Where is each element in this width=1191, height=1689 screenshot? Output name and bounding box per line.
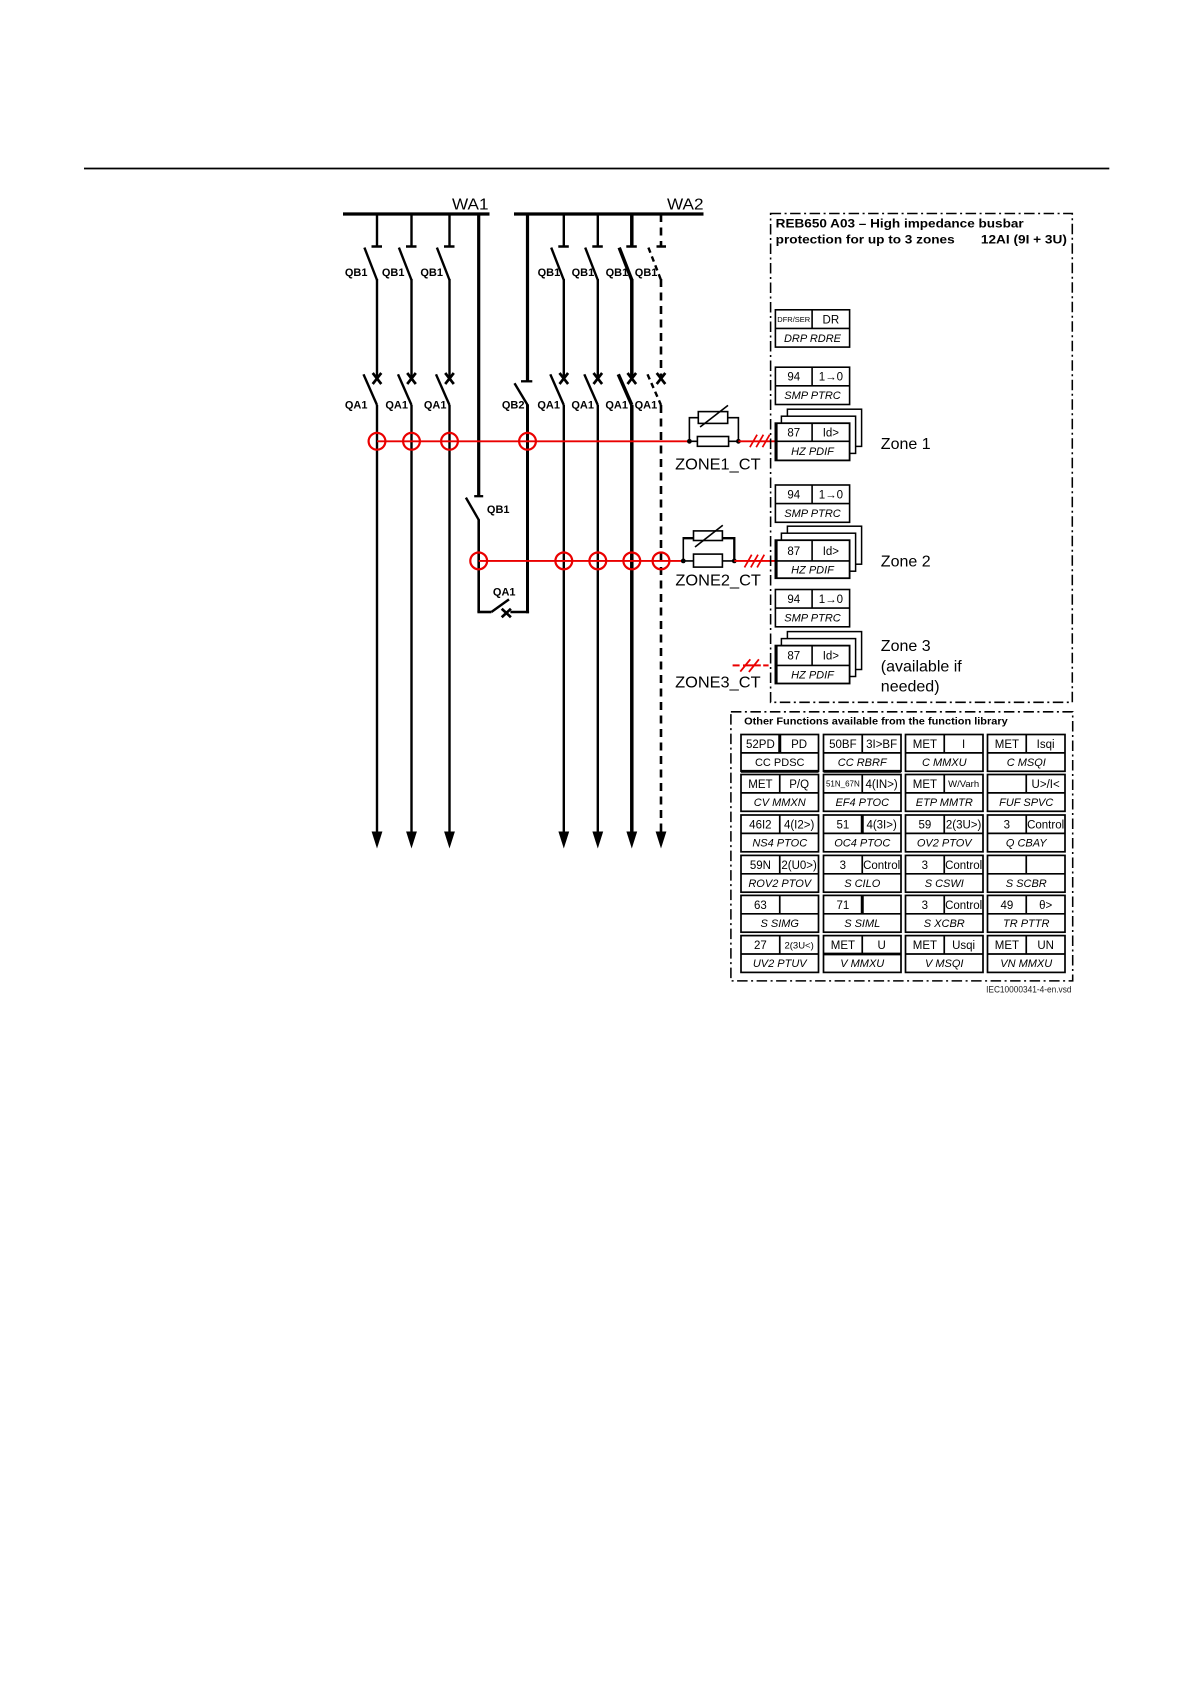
- svg-text:Zone 2: Zone 2: [881, 554, 931, 571]
- svg-text:S SIMG: S SIMG: [760, 918, 799, 930]
- svg-text:UN: UN: [1037, 940, 1054, 952]
- svg-text:C MMXU: C MMXU: [922, 757, 967, 769]
- function block FUF SPVC: [988, 775, 1066, 812]
- function block S SIML: [824, 895, 902, 932]
- disconnector QB2 (bus section, WA2 side): [515, 381, 533, 405]
- svg-text:V MSQI: V MSQI: [925, 958, 964, 970]
- svg-text:Control: Control: [945, 860, 982, 872]
- svg-text:DRP RDRE: DRP RDRE: [784, 333, 842, 345]
- node zone 2 right: [732, 559, 737, 564]
- function block SMP PTRC zone 2: [775, 485, 849, 522]
- function block DRP RDRE (disturbance recorder): [775, 310, 849, 347]
- svg-text:QA1: QA1: [537, 400, 560, 412]
- svg-text:SMP PTRC: SMP PTRC: [784, 508, 840, 520]
- function block OC4 PTOC: [824, 815, 902, 852]
- circuit breaker QA1 (WA1 bay 2): [398, 373, 416, 405]
- svg-text:CC RBRF: CC RBRF: [838, 757, 888, 769]
- wire bus-section below QB1: [477, 519, 480, 612]
- disconnector QB1 (WA1 bay 1): [364, 247, 382, 281]
- header rule: [84, 168, 1109, 170]
- svg-text:3I>BF: 3I>BF: [866, 739, 897, 751]
- wire WA2 bay 3 feeder with arrow: [626, 405, 637, 849]
- svg-text:SMP PTRC: SMP PTRC: [784, 612, 840, 624]
- function block S SIMG: [741, 895, 819, 932]
- svg-text:94: 94: [787, 490, 800, 502]
- svg-text:HZ PDIF: HZ PDIF: [791, 669, 835, 681]
- svg-text:3: 3: [922, 900, 928, 912]
- function block S CSWI: [906, 855, 984, 892]
- svg-text:SMP PTRC: SMP PTRC: [784, 390, 840, 402]
- wire WA2 bay 1 feeder with arrow: [558, 405, 569, 849]
- svg-text:1→0: 1→0: [819, 490, 843, 502]
- svg-text:WA1: WA1: [452, 197, 489, 214]
- svg-text:TR PTTR: TR PTTR: [1003, 918, 1049, 930]
- wire WA2 bay 2 feeder with arrow: [592, 405, 603, 849]
- other functions box: [731, 712, 1073, 981]
- svg-text:MET: MET: [913, 940, 937, 952]
- varistor (zone 1 metrosil): [698, 405, 728, 427]
- svg-text:46I2: 46I2: [749, 819, 771, 831]
- svg-text:W/Varh: W/Varh: [948, 779, 979, 790]
- svg-text:52PD: 52PD: [746, 739, 775, 751]
- svg-text:Q CBAY: Q CBAY: [1006, 838, 1047, 850]
- disconnector QB1 (WA2 bay 1): [551, 247, 569, 281]
- svg-text:V MMXU: V MMXU: [840, 958, 884, 970]
- svg-text:WA2: WA2: [667, 197, 704, 214]
- svg-text:Id>: Id>: [823, 427, 840, 439]
- function block VN MMXU: [988, 936, 1066, 973]
- wire WA2 bay 1 stub: [563, 214, 565, 247]
- svg-text:QA1: QA1: [571, 400, 594, 412]
- svg-text:3: 3: [840, 860, 846, 872]
- svg-text:C MSQI: C MSQI: [1007, 757, 1046, 769]
- svg-text:94: 94: [787, 372, 800, 384]
- function block V MMXU: [824, 936, 902, 973]
- CT ring zone 1 #4: [519, 433, 536, 450]
- svg-text:S CILO: S CILO: [844, 878, 881, 890]
- IED box REB650 A03: [771, 214, 1073, 703]
- function block C MSQI: [988, 735, 1066, 772]
- wire zone 1 CT secondary line (red): [377, 440, 689, 442]
- wire zone 2 red to relay: [734, 560, 775, 562]
- wire zone 1 red to relay: [738, 440, 775, 442]
- function block ROV2 PTOV: [741, 855, 819, 892]
- wire bus-section below QB2: [526, 404, 529, 613]
- svg-text:θ>: θ>: [1039, 900, 1052, 912]
- svg-text:Id>: Id>: [823, 651, 840, 663]
- svg-text:S XCBR: S XCBR: [924, 918, 965, 930]
- svg-text:EF4 PTOC: EF4 PTOC: [835, 797, 889, 809]
- function block OV2 PTOV: [906, 815, 984, 852]
- svg-text:12AI (9I + 3U): 12AI (9I + 3U): [981, 232, 1067, 246]
- circuit breaker QA1 (WA1 bay 1): [364, 373, 382, 405]
- wire WA2 bay 1 middle: [563, 279, 565, 377]
- svg-text:51N_67N: 51N_67N: [826, 780, 860, 789]
- svg-text:QB2: QB2: [502, 400, 525, 412]
- svg-text:(available if: (available if: [881, 658, 962, 675]
- svg-text:87: 87: [787, 546, 800, 558]
- svg-text:2(3U>): 2(3U>): [946, 819, 982, 831]
- wire WA2 bay 3 middle: [630, 279, 634, 377]
- svg-text:94: 94: [787, 594, 800, 606]
- function block C MMXU: [906, 735, 984, 772]
- CT slashes zone 1: [750, 435, 770, 448]
- svg-text:MET: MET: [913, 739, 937, 751]
- CT ring zone 2 #3: [589, 553, 606, 570]
- svg-text:P/Q: P/Q: [789, 779, 809, 791]
- svg-text:MET: MET: [995, 739, 1019, 751]
- svg-text:QB1: QB1: [606, 267, 629, 279]
- svg-text:ETP MMTR: ETP MMTR: [916, 797, 973, 809]
- svg-text:UV2 PTUV: UV2 PTUV: [753, 958, 808, 970]
- function block NS4 PTOC: [741, 815, 819, 852]
- svg-text:Usqi: Usqi: [952, 940, 975, 952]
- CT ring zone 2 #1: [470, 553, 487, 570]
- svg-text:needed): needed): [881, 679, 940, 696]
- svg-text:4(IN>): 4(IN>): [865, 779, 897, 791]
- svg-text:QA1: QA1: [385, 400, 408, 412]
- function block TR PTTR: [988, 895, 1066, 932]
- wire bus-section horizontal left: [477, 611, 491, 614]
- svg-text:I: I: [962, 739, 965, 751]
- function block HZ PDIF zone 3: [787, 632, 861, 670]
- wire bus-section horizontal right: [510, 611, 529, 614]
- svg-text:87: 87: [787, 651, 800, 663]
- wire WA2 bay 3 stub: [630, 214, 634, 247]
- function block CV MMXN: [741, 775, 819, 812]
- svg-text:Isqi: Isqi: [1037, 739, 1055, 751]
- CT ring zone 2 #2: [555, 553, 572, 570]
- svg-text:CV MMXN: CV MMXN: [754, 797, 806, 809]
- svg-text:MET: MET: [913, 779, 937, 791]
- disconnector QB1 (bus section, WA1 side): [466, 496, 483, 520]
- svg-text:MET: MET: [995, 940, 1019, 952]
- svg-text:51: 51: [836, 819, 849, 831]
- svg-text:S SIML: S SIML: [844, 918, 880, 930]
- wire WA2 bay 2 stub: [597, 214, 599, 247]
- function block S XCBR: [906, 895, 984, 932]
- svg-text:HZ PDIF: HZ PDIF: [791, 565, 835, 577]
- wire WA1 bay 1 middle: [376, 279, 378, 377]
- svg-text:QA1: QA1: [635, 400, 658, 412]
- function block UV2 PTUV: [741, 936, 819, 973]
- wire WA1 bay 2 stub: [410, 214, 412, 247]
- svg-text:QB1: QB1: [345, 267, 368, 279]
- function block HZ PDIF zone 1 (87 differential): [787, 409, 861, 446]
- svg-text:27: 27: [754, 940, 767, 952]
- wire zone 2 between nodes: [683, 560, 734, 562]
- busbar WA1: [343, 212, 490, 215]
- circuit breaker QA1 (bus coupler, horizontal): [491, 599, 511, 617]
- wire WA1 bay 2 feeder with arrow: [406, 405, 417, 849]
- disconnector QB1 (WA2 bay 4): [648, 247, 666, 281]
- node zone 2 left: [681, 559, 686, 564]
- svg-text:ROV2 PTOV: ROV2 PTOV: [748, 878, 812, 890]
- svg-text:1→0: 1→0: [819, 372, 843, 384]
- node zone 1 left: [687, 439, 692, 444]
- wire WA1 bay 3 feeder with arrow: [444, 405, 455, 849]
- disconnector QB1 (WA1 bay 2): [399, 247, 417, 281]
- svg-text:OV2 PTOV: OV2 PTOV: [917, 838, 973, 850]
- wire WA1 bay 3 stub: [448, 214, 450, 247]
- svg-text:S SCBR: S SCBR: [1006, 878, 1047, 890]
- disconnector QB1 (WA1 bay 3): [437, 247, 455, 281]
- svg-text:49: 49: [1000, 900, 1013, 912]
- svg-text:QB1: QB1: [572, 267, 595, 279]
- svg-text:QA1: QA1: [493, 587, 516, 599]
- svg-text:QA1: QA1: [424, 400, 447, 412]
- CT slashes zone 2: [745, 555, 765, 568]
- circuit breaker QA1 (WA2 bay 3): [618, 373, 636, 405]
- svg-text:59N: 59N: [750, 860, 771, 872]
- svg-text:QB1: QB1: [635, 267, 658, 279]
- svg-text:87: 87: [787, 427, 800, 439]
- function block S SCBR: [988, 855, 1066, 892]
- circuit breaker QA1 (WA1 bay 3): [436, 373, 454, 405]
- svg-text:Control: Control: [1027, 819, 1064, 831]
- function block SMP PTRC zone 1 (94 trip logic): [775, 367, 849, 404]
- function block EF4 PTOC: [824, 775, 902, 812]
- wire zone 1 stabilizing loop: [689, 418, 738, 442]
- svg-text:FUF SPVC: FUF SPVC: [999, 797, 1053, 809]
- svg-text:Zone 1: Zone 1: [881, 436, 931, 453]
- svg-text:DR: DR: [823, 314, 840, 326]
- wire zone 3 CT line (red dashed): [733, 664, 769, 666]
- svg-text:3: 3: [922, 860, 928, 872]
- svg-text:4(I2>): 4(I2>): [784, 819, 815, 831]
- svg-text:Other Functions available from: Other Functions available from the funct…: [744, 716, 1008, 728]
- circuit breaker QA1 (WA2 bay 1): [550, 373, 568, 405]
- svg-text:71: 71: [836, 900, 849, 912]
- wire WA1 bay 2 middle: [410, 279, 412, 377]
- svg-text:MET: MET: [831, 940, 855, 952]
- svg-text:U>/I<: U>/I<: [1032, 779, 1060, 791]
- wire WA2 bay 4 middle: [660, 279, 663, 377]
- svg-text:QA1: QA1: [345, 400, 368, 412]
- function block CC RBRF: [824, 735, 902, 772]
- svg-text:REB650 A03 – High impedance bu: REB650 A03 – High impedance busbar: [776, 216, 1024, 230]
- svg-text:S CSWI: S CSWI: [925, 878, 964, 890]
- varistor (zone 2 metrosil): [694, 525, 723, 547]
- function block S CILO: [824, 855, 902, 892]
- svg-text:QB1: QB1: [487, 504, 510, 516]
- svg-text:2(3U<): 2(3U<): [784, 940, 813, 951]
- svg-text:U: U: [877, 940, 885, 952]
- svg-text:QB1: QB1: [382, 267, 405, 279]
- CT ring zone 1 #3: [441, 433, 458, 450]
- wire zone 2 stabilizing loop: [683, 537, 735, 561]
- svg-text:HZ PDIF: HZ PDIF: [791, 446, 835, 458]
- svg-text:Control: Control: [863, 860, 900, 872]
- disconnector QB1 (WA2 bay 3): [619, 247, 637, 281]
- svg-text:QA1: QA1: [605, 400, 628, 412]
- svg-text:NS4 PTOC: NS4 PTOC: [752, 838, 807, 850]
- disconnector QB1 (WA2 bay 2): [585, 247, 603, 281]
- svg-text:CC PDSC: CC PDSC: [755, 757, 805, 769]
- svg-text:MET: MET: [748, 779, 772, 791]
- svg-text:DFR/SER: DFR/SER: [777, 315, 811, 324]
- svg-text:2(U0>): 2(U0>): [781, 860, 817, 872]
- svg-text:Zone 3: Zone 3: [881, 638, 931, 655]
- busbar WA2: [514, 212, 704, 215]
- wire WA2 bay 4 feeder with arrow: [656, 405, 667, 849]
- wire WA1 bay 3 middle: [448, 279, 450, 377]
- resistor (zone 1 stabilizing): [697, 437, 728, 447]
- wire WA1 bay 1 feeder with arrow: [372, 405, 383, 849]
- svg-text:3: 3: [1004, 819, 1010, 831]
- svg-text:1→0: 1→0: [819, 594, 843, 606]
- CT slashes zone 3: [740, 659, 759, 672]
- svg-text:Id>: Id>: [823, 546, 840, 558]
- function block SMP PTRC zone 3: [775, 590, 849, 627]
- wire zone 1 between nodes: [689, 440, 738, 442]
- CT ring zone 2 #5: [653, 553, 670, 570]
- wire bus-section from WA1: [477, 214, 480, 496]
- svg-text:QB1: QB1: [420, 267, 443, 279]
- wire WA2 bay 2 middle: [597, 279, 599, 377]
- wire WA2 bay 4 stub: [660, 214, 663, 247]
- svg-text:Control: Control: [945, 900, 982, 912]
- svg-text:IEC10000341-4-en.vsd: IEC10000341-4-en.vsd: [986, 984, 1071, 995]
- svg-text:OC4 PTOC: OC4 PTOC: [834, 838, 890, 850]
- wire zone 2 CT secondary line (red): [479, 560, 684, 562]
- wire WA1 bay 1 stub: [376, 214, 378, 247]
- svg-text:QB1: QB1: [538, 267, 561, 279]
- function block V MSQI: [906, 936, 984, 973]
- function block HZ PDIF zone 2: [787, 526, 861, 564]
- node zone 1 right: [736, 439, 741, 444]
- svg-text:ZONE2_CT: ZONE2_CT: [675, 572, 761, 589]
- CT ring zone 1 #2: [403, 433, 420, 450]
- wire bus-section from WA2: [526, 214, 529, 381]
- function block ETP MMTR: [906, 775, 984, 812]
- resistor (zone 2 stabilizing): [694, 554, 723, 567]
- svg-text:ZONE3_CT: ZONE3_CT: [675, 674, 761, 691]
- circuit breaker QA1 (WA2 bay 4): [648, 373, 666, 405]
- svg-text:VN MMXU: VN MMXU: [1000, 958, 1052, 970]
- svg-text:63: 63: [754, 900, 767, 912]
- function block Q CBAY: [988, 815, 1066, 852]
- CT ring zone 2 #4: [623, 553, 640, 570]
- circuit breaker QA1 (WA2 bay 2): [584, 373, 602, 405]
- svg-text:ZONE1_CT: ZONE1_CT: [675, 456, 761, 473]
- svg-text:4(3I>): 4(3I>): [866, 819, 897, 831]
- function block CC PDSC: [741, 735, 819, 772]
- CT ring zone 1 #1: [369, 433, 386, 450]
- svg-text:50BF: 50BF: [829, 739, 857, 751]
- svg-text:PD: PD: [791, 739, 807, 751]
- svg-text:protection for up to 3 zones: protection for up to 3 zones: [776, 232, 955, 246]
- svg-text:59: 59: [918, 819, 931, 831]
